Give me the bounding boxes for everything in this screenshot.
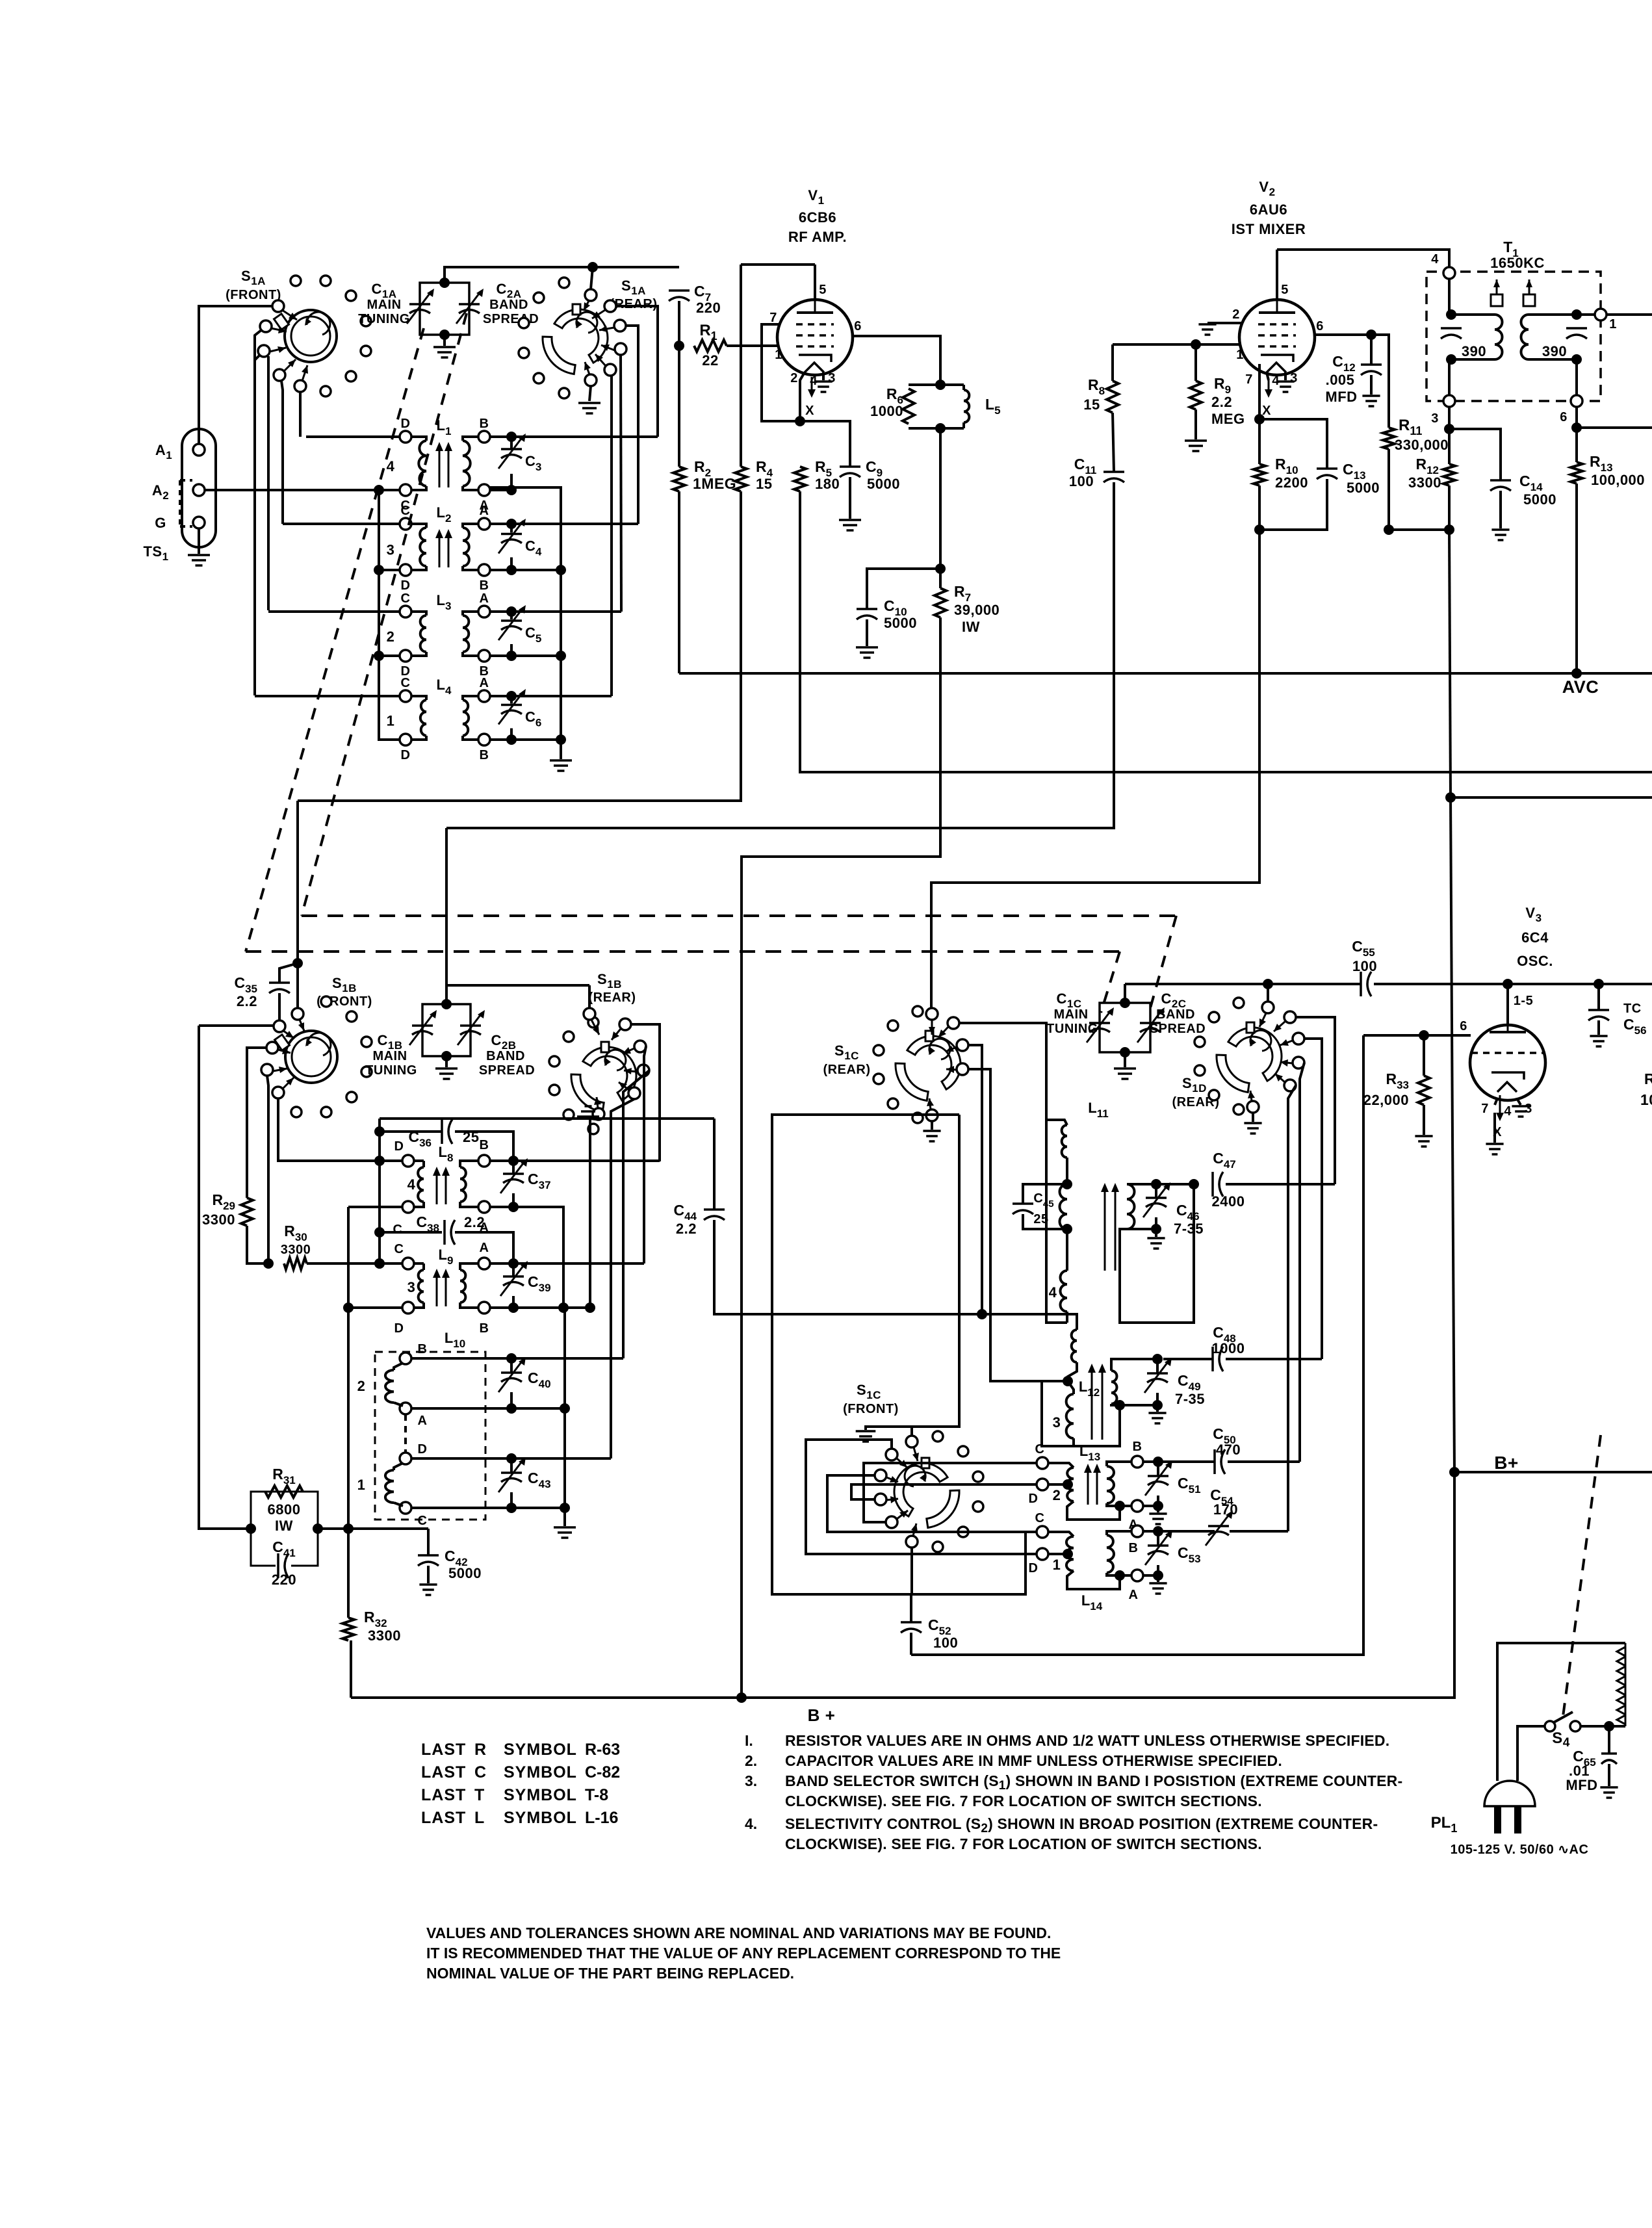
S1C front arrow e — [913, 1523, 916, 1536]
svg-text:39,000: 39,000 — [954, 602, 1000, 618]
svg-text:4: 4 — [1431, 252, 1439, 266]
L4 primary bottom terminal D — [400, 734, 411, 745]
wire C36 gnd rail — [380, 1117, 590, 1120]
S1D terminal C54 — [1284, 1080, 1296, 1091]
capacitor C65 — [1601, 1752, 1617, 1755]
T1 primary winding — [1495, 315, 1503, 359]
wire S1A-t4 to C-L2 row — [281, 381, 283, 524]
wire B+ column — [1449, 530, 1451, 797]
L1 primary loop bottom — [411, 486, 426, 490]
dot C1A box top — [439, 278, 450, 288]
wire V1 pin6 to L5 — [853, 336, 940, 385]
wire V2 pin2 stub — [1207, 322, 1241, 324]
wire AVC line — [679, 672, 1652, 675]
trimmer capacitor C43 — [501, 1471, 522, 1474]
wire V2 grid row — [1113, 343, 1239, 346]
trimmer stem bottom L2 — [510, 558, 513, 571]
ground below TS1 — [188, 555, 210, 565]
trimmer capacitor C40 — [501, 1371, 522, 1374]
S1B front ring circles — [291, 996, 372, 1117]
dot R6L5 top — [935, 380, 946, 390]
heater X arrow V2 — [1268, 380, 1270, 395]
L13 terminal A — [1131, 1500, 1143, 1512]
L8 terminal B — [478, 1155, 490, 1167]
wire L10 winding2 top — [394, 1363, 403, 1370]
wire L12 left rect — [1042, 1381, 1120, 1446]
dot R31 left — [246, 1523, 256, 1534]
L1 trimmer row top — [490, 435, 511, 438]
svg-text:SYMBOL: SYMBOL — [504, 1763, 577, 1781]
variable capacitor C2B — [460, 1024, 481, 1027]
wire S1B rear rotor drop — [588, 985, 591, 1009]
resistor R12 — [1443, 464, 1455, 486]
S1B rear terminal A-L9 — [634, 1041, 646, 1052]
wire L11 sec top — [1127, 1183, 1156, 1185]
svg-text:4: 4 — [387, 458, 395, 474]
svg-text:7: 7 — [1245, 372, 1253, 387]
inductor L8 secondary — [460, 1167, 466, 1202]
svg-text:D: D — [401, 417, 411, 431]
junction R11 foot — [1384, 525, 1394, 535]
trimmer capacitor C53 — [1148, 1544, 1168, 1547]
wire C1C box ground — [1124, 1052, 1126, 1067]
S1B rear arrow 4 — [619, 1082, 629, 1090]
svg-text:SPREAD: SPREAD — [483, 312, 539, 326]
S1A rear terminal top — [585, 289, 597, 301]
wire S1A-t2 to C-L4 row — [255, 330, 261, 695]
wire L9 sec top — [460, 1263, 478, 1270]
S1A front arrow t4 — [284, 359, 296, 371]
wire L10 winding1 top — [394, 1463, 403, 1470]
svg-text:1000: 1000 — [870, 403, 903, 419]
S1B front rotor terminal — [292, 1008, 303, 1020]
wire B-L8 row — [490, 1159, 660, 1162]
svg-text:BAND: BAND — [489, 298, 528, 312]
resistor R8 — [1107, 381, 1118, 413]
L1 secondary loop bottom — [463, 486, 478, 490]
C51 stem top — [1157, 1462, 1159, 1476]
L8 tuning arrows — [436, 1174, 438, 1204]
svg-text:B: B — [480, 748, 489, 762]
dot L11 tap upper — [1062, 1179, 1072, 1189]
wire L11 C bottom — [1066, 1312, 1068, 1323]
inductor L3 primary coil — [420, 615, 426, 652]
S1C rear arrow 2 — [946, 1047, 957, 1052]
ground at V2 pin2 — [1198, 324, 1216, 335]
svg-text:CLOCKWISE). SEE FIG. 7 FOR: CLOCKWISE). SEE FIG. 7 FOR LOCATION OF S… — [785, 1835, 1262, 1852]
S1C rear terminal L12a — [957, 1039, 968, 1051]
wire C-L14 into coil — [1048, 1532, 1074, 1536]
wire C-L13 into coil — [1048, 1463, 1074, 1468]
tube V3 6C4 — [1470, 1025, 1545, 1100]
dot rail B-L4 — [556, 734, 566, 745]
S1C front rotor mirrored — [894, 1458, 959, 1528]
L2 primary bottom terminal D — [400, 564, 411, 576]
svg-text:7-35: 7-35 — [1174, 1221, 1204, 1237]
L10 terminal B — [400, 1353, 411, 1364]
dot trimmer top L3 — [506, 606, 517, 617]
wire S1D rotor feed — [1267, 984, 1269, 1002]
L1 primary loop — [411, 437, 426, 441]
wire R29 bottom — [247, 1226, 268, 1263]
S1B rear terminal D-L10 — [628, 1087, 640, 1099]
ground below C51 — [1149, 1514, 1167, 1524]
svg-text:330,000: 330,000 — [1395, 437, 1449, 453]
junction C14 branch — [1444, 424, 1454, 434]
svg-text:C: C — [393, 1223, 403, 1237]
svg-text:B: B — [480, 1321, 489, 1336]
TS1 terminal G — [193, 517, 205, 528]
wire C50 out — [1228, 1460, 1300, 1463]
dot C49 bottom — [1152, 1400, 1163, 1410]
dashed gang line S4 — [1563, 1435, 1601, 1716]
wire C48 row — [1163, 1358, 1213, 1360]
svg-text:C: C — [401, 591, 411, 606]
dot C37 top — [508, 1156, 519, 1166]
dot trimmer top L2 — [506, 519, 517, 529]
L4 secondary loop top — [463, 696, 478, 700]
wire C46 gnd — [1155, 1229, 1157, 1237]
inductor L4 primary coil — [420, 700, 426, 736]
wire B-L2 row to rail — [490, 569, 561, 571]
C46 stem bottom — [1155, 1217, 1157, 1229]
dot C53 top — [1153, 1526, 1163, 1536]
ground below C65 — [1600, 1787, 1618, 1798]
ground below C14 — [1491, 530, 1509, 540]
S1B front rotor arrow — [300, 1020, 304, 1031]
L10 dashed shield box — [375, 1352, 485, 1520]
wire B-L14 row — [1143, 1530, 1215, 1533]
wire C51 gnd — [1157, 1506, 1159, 1512]
S1B rear terminal gnd — [593, 1108, 604, 1120]
junction R33 — [1419, 1030, 1429, 1041]
svg-text:100: 100 — [1069, 473, 1094, 489]
junction C-L9 column — [374, 1258, 385, 1269]
C53 stem bottom — [1157, 1565, 1159, 1575]
wire V2 heater pin — [1267, 372, 1269, 380]
svg-text:1: 1 — [387, 713, 395, 729]
S1C front terminal c — [875, 1494, 886, 1505]
L9 terminal A — [478, 1258, 490, 1269]
wire L12 A to tap — [1068, 1362, 1077, 1381]
wire V3 pin6 row — [1363, 1034, 1471, 1037]
wire plug left riser — [1497, 1643, 1625, 1781]
S1C rear arrow 1 — [938, 1027, 948, 1037]
svg-text:390: 390 — [1542, 343, 1567, 359]
dashed gang line C2A — [302, 313, 467, 916]
C43 stem bottom — [510, 1492, 513, 1508]
S1B rear arrow 3 — [624, 1070, 638, 1072]
wire S1B t2 down — [267, 1076, 268, 1263]
inductor L5 — [964, 390, 969, 422]
variable capacitor C54 — [1208, 1525, 1229, 1527]
S1A rear terminal A-L3 — [615, 343, 626, 355]
wire S1B t3 to D-L8 — [278, 1098, 402, 1161]
transformer T1 dashed box — [1426, 272, 1601, 401]
wire S1C front t-b — [827, 1475, 1037, 1532]
wire pin6 to R11 — [1371, 335, 1389, 428]
wire R8 top — [1111, 344, 1114, 381]
S1C rear rotor arrow — [931, 1020, 933, 1035]
dot A-L8 column B-L9 — [558, 1302, 569, 1313]
ground below S1D — [1244, 1123, 1261, 1133]
ground below C56 — [1590, 1036, 1607, 1046]
switch S4 blade — [1554, 1712, 1573, 1722]
S1B rear rotor — [583, 1047, 636, 1100]
wire C36 row left — [380, 1130, 442, 1133]
wire cathode node to C9 — [800, 421, 850, 467]
svg-text:100,000: 100,000 — [1591, 472, 1645, 488]
resistor R6 — [903, 389, 914, 424]
svg-text:4: 4 — [1049, 1284, 1057, 1301]
wire C-L9 to coil — [414, 1262, 424, 1265]
svg-text:2: 2 — [387, 628, 395, 645]
svg-text:BAND: BAND — [486, 1049, 525, 1063]
resistor R2 — [673, 467, 685, 491]
dashed gang line C1A — [246, 328, 424, 952]
wire A-L10 row — [411, 1407, 565, 1410]
svg-text:LAST: LAST — [421, 1809, 466, 1827]
svg-text:A: A — [480, 504, 489, 518]
wire T1 terminal 1 out — [1607, 313, 1652, 316]
S1C front rotor terminal — [906, 1436, 918, 1447]
ground rail tail — [560, 740, 562, 759]
svg-text:3: 3 — [387, 542, 395, 558]
junction R10 bottom — [1254, 525, 1265, 535]
junction A2 column — [374, 485, 384, 495]
svg-text:470: 470 — [1216, 1442, 1241, 1458]
junction R1/C7/R2 — [674, 341, 684, 351]
svg-text:2: 2 — [790, 371, 798, 385]
wire C65 stem — [1608, 1726, 1610, 1754]
resistor R13 — [1571, 462, 1582, 484]
capacitor C35 — [269, 981, 290, 984]
wire C10 branch — [867, 569, 940, 609]
wire C10 ground — [866, 619, 868, 646]
power transformer primary winding (edge) — [1625, 1643, 1627, 1726]
capacitor C9 — [840, 465, 860, 468]
svg-text:3: 3 — [407, 1279, 416, 1295]
wire A-L9 row — [490, 1262, 644, 1265]
S1D arrow 2 — [1280, 1041, 1293, 1045]
dot T1 left cap bottom — [1446, 354, 1456, 365]
S1D rotor terminal — [1262, 1002, 1274, 1013]
wire C38 row left — [380, 1231, 442, 1234]
wire L9 primary top — [422, 1263, 425, 1270]
C49 stem bottom — [1156, 1393, 1159, 1405]
resistor R9 — [1190, 381, 1202, 409]
svg-text:4: 4 — [407, 1176, 416, 1193]
dot C37 bottom — [508, 1202, 519, 1212]
S1D arrow 1 — [1274, 1022, 1285, 1031]
svg-text:7: 7 — [769, 311, 777, 325]
inductor L2 primary coil — [420, 528, 426, 566]
L13 tuning arrows — [1087, 1471, 1089, 1505]
variable capacitor C1B — [412, 1024, 433, 1027]
svg-text:(REAR): (REAR) — [823, 1063, 871, 1077]
wire V2 pin6 out — [1315, 333, 1371, 336]
ground below C1B box — [435, 1069, 458, 1079]
S1C rear arrow gnd — [929, 1098, 931, 1109]
S1A front terminal L4C — [260, 320, 272, 332]
wire S1C front t-e to C52 — [910, 1548, 913, 1594]
wire L13 sec bottom — [1107, 1503, 1120, 1506]
inductor L11 coil A — [1062, 1125, 1067, 1158]
svg-text:IT IS RECOMMENDED THAT THE: IT IS RECOMMENDED THAT THE VALUE OF ANY … — [426, 1945, 1061, 1962]
inductor L12 coil B — [1066, 1394, 1074, 1438]
wire L8 sec bottom — [460, 1202, 478, 1207]
wire L12 sec bottom — [1111, 1404, 1120, 1405]
svg-text:6800: 6800 — [268, 1501, 301, 1518]
S1C front ring circles — [933, 1431, 983, 1552]
variable capacitor C1A — [409, 303, 430, 305]
S1B front arrow L8D — [278, 1050, 290, 1053]
junction V1 cathode node — [795, 416, 805, 426]
wire R4 bottom loop — [298, 491, 741, 801]
wire B-L4 row to rail — [490, 738, 561, 741]
wire C42 stem — [427, 1529, 430, 1555]
inductor L11 coil B — [1060, 1184, 1068, 1229]
inductor L10 winding 1 — [385, 1470, 394, 1503]
dot L13 A node — [1115, 1501, 1125, 1511]
L2 primary loop bottom — [411, 566, 426, 570]
wire rail extension to C44 — [590, 1117, 714, 1120]
L14 terminal D — [1037, 1548, 1048, 1560]
svg-text:180: 180 — [815, 476, 840, 492]
switch S4 left contact — [1545, 1721, 1555, 1731]
wire R7 top stub — [939, 569, 942, 588]
wire T1-3 down — [1448, 407, 1451, 429]
capacitor C45 — [1013, 1202, 1033, 1205]
dot rail A-L10 — [560, 1403, 570, 1414]
svg-text:D: D — [418, 1442, 428, 1457]
dot T1 right cap top — [1571, 309, 1582, 320]
ground below S1C rear — [923, 1131, 940, 1141]
svg-text:R-63: R-63 — [585, 1741, 620, 1759]
wire C1B box ground — [445, 1056, 448, 1067]
svg-text:SYMBOL: SYMBOL — [504, 1786, 577, 1804]
wire C35 jog — [279, 963, 298, 983]
L2 secondary loop top — [463, 524, 478, 528]
capacitor C52 — [901, 1621, 922, 1624]
wire rotor feed S1B front — [296, 963, 299, 1008]
wire S1A-t3 drop — [267, 356, 270, 610]
S1C front arrow d — [897, 1510, 908, 1519]
L1 primary bottom terminal C — [400, 484, 411, 496]
S1A front terminal A1-in — [272, 300, 284, 312]
S1C rear terminal L11 — [948, 1017, 959, 1029]
dot T1 left cap top — [1446, 309, 1456, 320]
L10 core dashed link — [404, 1414, 407, 1453]
trimmer capacitor C46 — [1146, 1197, 1167, 1199]
wire A2 column to D-L2 — [379, 490, 400, 570]
wire D-L10 row — [411, 1457, 611, 1460]
wire C56 gnd — [1597, 1020, 1600, 1035]
svg-text:C: C — [474, 1763, 486, 1781]
svg-text:1: 1 — [357, 1477, 366, 1493]
wire C56 stem — [1597, 984, 1600, 1010]
L3 trimmer row bottom — [490, 654, 511, 657]
wire C55 row — [1125, 983, 1361, 985]
T1 terminal 6 — [1571, 395, 1582, 407]
tube V2 6AU6 — [1239, 300, 1315, 375]
svg-text:7: 7 — [1481, 1102, 1489, 1116]
svg-text:3: 3 — [1525, 1102, 1532, 1116]
wire C45 bottom leg — [1023, 1214, 1067, 1229]
wire cathode line to S1C rear — [931, 530, 1259, 1009]
wire R9 leads — [1194, 344, 1197, 381]
terminal strip TS1 body — [182, 429, 216, 547]
dot trimmer top L1 — [506, 432, 517, 442]
resistor R11 — [1383, 428, 1395, 449]
T1 terminal 4 — [1443, 267, 1455, 279]
inductor L13 primary — [1066, 1468, 1074, 1501]
svg-text:25: 25 — [1033, 1212, 1048, 1226]
ground at S1C front — [856, 1431, 876, 1442]
wire C14 ground — [1499, 491, 1502, 528]
wire big loop left — [296, 801, 299, 963]
wire C42 gnd — [427, 1566, 430, 1583]
ground below C9 — [839, 520, 861, 530]
svg-text:TC: TC — [1623, 1002, 1642, 1016]
svg-text:.005: .005 — [1326, 372, 1355, 388]
trimmer stem bottom L4 — [510, 729, 513, 740]
svg-text:R: R — [1644, 1070, 1652, 1087]
junction C35 node — [292, 958, 303, 968]
junction B+ column top — [1444, 525, 1454, 535]
L3 secondary loop top — [463, 612, 478, 615]
S1D terminal C50 — [1293, 1057, 1304, 1069]
L1 tuning arrows — [439, 450, 441, 487]
C51 stem bottom — [1157, 1496, 1159, 1506]
ground below C1C box — [1114, 1069, 1136, 1079]
wire A-L8 row — [490, 1207, 563, 1308]
inductor L3 secondary coil — [463, 615, 469, 652]
wire S1B rear t3 col — [623, 1070, 649, 1358]
gang capacitor box C1A/C2A — [420, 283, 469, 335]
ground below R9 — [1185, 441, 1207, 451]
S1C front arrow b — [886, 1477, 898, 1482]
L2 secondary loop bottom — [463, 566, 478, 570]
trimmer capacitor C4 — [501, 533, 522, 536]
wire C1C box feed — [1124, 984, 1126, 1003]
S1D arrow gnd — [1250, 1091, 1252, 1101]
wire B-L8 drop — [658, 1159, 661, 1162]
svg-text:6CB6: 6CB6 — [799, 209, 836, 226]
ground V2 pin3 — [1276, 382, 1294, 392]
wire T1 left top row — [1451, 313, 1495, 316]
svg-text:170: 170 — [1213, 1501, 1238, 1518]
svg-text:3: 3 — [1431, 411, 1439, 426]
wire R33 gnd — [1423, 1105, 1425, 1135]
trimmer stem bottom L3 — [510, 644, 513, 656]
junction C12 — [1366, 330, 1376, 340]
wire C52 stem — [910, 1594, 912, 1622]
svg-text:D: D — [1029, 1492, 1039, 1506]
svg-text:R: R — [474, 1741, 486, 1759]
wire left riser to R31 — [199, 1026, 251, 1529]
S1B rear rotor terminal — [584, 1008, 595, 1020]
wire S1A rear gnd terminal — [589, 386, 591, 401]
wire L11 sec return — [1120, 1184, 1194, 1323]
dashed gang row upper — [302, 914, 1176, 917]
ground of secondary rail — [550, 760, 572, 771]
trimmer stem top L2 — [510, 524, 513, 533]
wire R9 bottom — [1194, 409, 1197, 439]
S1B rear ring circles — [549, 1017, 599, 1134]
capacitor C12 — [1361, 363, 1382, 366]
S1B front terminal L9D — [272, 1087, 284, 1098]
